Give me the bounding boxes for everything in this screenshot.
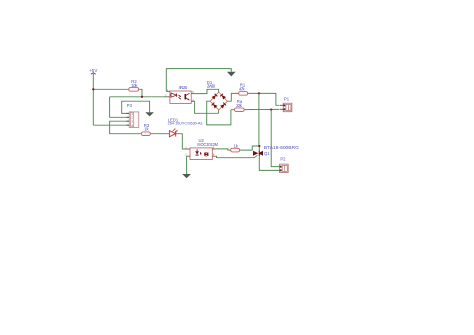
- resistor R3: [141, 123, 150, 135]
- resistor R2: [129, 79, 139, 91]
- svg-text:10k: 10k: [131, 83, 138, 88]
- svg-text:47k: 47k: [239, 87, 246, 92]
- svg-text:264-10UYC/S530-A3: 264-10UYC/S530-A3: [168, 122, 203, 126]
- svg-text:MOC3023M: MOC3023M: [197, 142, 218, 147]
- triac Q1: [253, 145, 299, 156]
- ground arrow below U2: [182, 174, 191, 178]
- wire U2 pin2 to ground: [186, 156, 188, 174]
- optocoupler U1 4N25: [165, 85, 195, 104]
- wire main line down to triac: [258, 93, 260, 150]
- wire +5V to R2: [93, 88, 129, 90]
- svg-text:4N25: 4N25: [179, 85, 188, 90]
- wire bridge right corner to R1: [227, 93, 238, 101]
- wire U2 pin6 to gate resistor: [215, 149, 231, 150]
- diode D1a: [212, 94, 218, 100]
- resistor Ra: [235, 99, 245, 111]
- resistor 1k gate: [231, 143, 240, 152]
- wire 4N25 collector to bridge top: [195, 89, 219, 93]
- ground arrow top rail: [227, 72, 236, 77]
- diode D1d: [220, 103, 226, 109]
- wire bridge left corner loop to Ra: [207, 101, 231, 125]
- LED LED1: [168, 117, 203, 136]
- junction +5V/R2: [92, 88, 94, 90]
- wire P3 pin1 to ground: [122, 101, 150, 113]
- connector P3: [126, 103, 138, 127]
- diode D1c: [212, 103, 218, 109]
- junction R2 net: [141, 96, 143, 98]
- wire LED1 to U2 pin1: [176, 134, 190, 149]
- junction Ra net: [270, 108, 272, 110]
- connector P1: [280, 96, 292, 111]
- wire R1 to P1 pin1: [248, 93, 280, 105]
- svg-text:2W10: 2W10: [207, 84, 216, 89]
- svg-text:P2: P2: [280, 157, 286, 162]
- wire P1 pin2 net down to P2 pin1: [271, 110, 280, 167]
- resistor R1: [239, 83, 248, 96]
- svg-text:Q1: Q1: [264, 151, 270, 156]
- wire P3 pin3 to R3: [110, 121, 142, 134]
- wire Ra left lead: [231, 109, 235, 111]
- junction triac MT2 node: [258, 145, 260, 147]
- optotriac U2 MOC3023M: [185, 138, 218, 160]
- bridge rectifier D1 2W10: [207, 80, 228, 110]
- wire 4N25 pin1 rail to ground: [166, 69, 231, 92]
- wire Ra to P1 pin2: [244, 108, 279, 110]
- wire +5V to P3 pin4: [93, 124, 129, 126]
- wire U2 pin4 to triac gate: [215, 155, 257, 157]
- svg-text:22k: 22k: [236, 103, 243, 108]
- supply +5V: [89, 68, 98, 74]
- wire R3 to LED1: [150, 133, 169, 135]
- wire gate resistor to triac MT2 node: [240, 146, 260, 150]
- wire triac MT1 to P2 pin2: [259, 156, 280, 171]
- junction R1 net: [258, 92, 260, 94]
- wire bridge bottom corner: [218, 110, 220, 113]
- wire 4N25 emitter to bridge bottom: [195, 101, 219, 113]
- svg-text:BTA16-600BRG: BTA16-600BRG: [264, 145, 299, 150]
- wire +5V vertical: [92, 74, 94, 126]
- svg-text:P1: P1: [284, 96, 290, 101]
- connector P2: [280, 157, 289, 173]
- wire net to P3 pin2: [110, 97, 130, 118]
- ground arrow below P3: [145, 112, 154, 116]
- diode D1b: [220, 94, 226, 100]
- svg-text:+5V: +5V: [89, 68, 98, 73]
- wire cathode net horizontal: [110, 96, 167, 98]
- svg-text:P3: P3: [127, 103, 133, 108]
- wire R2 to net: [139, 89, 142, 97]
